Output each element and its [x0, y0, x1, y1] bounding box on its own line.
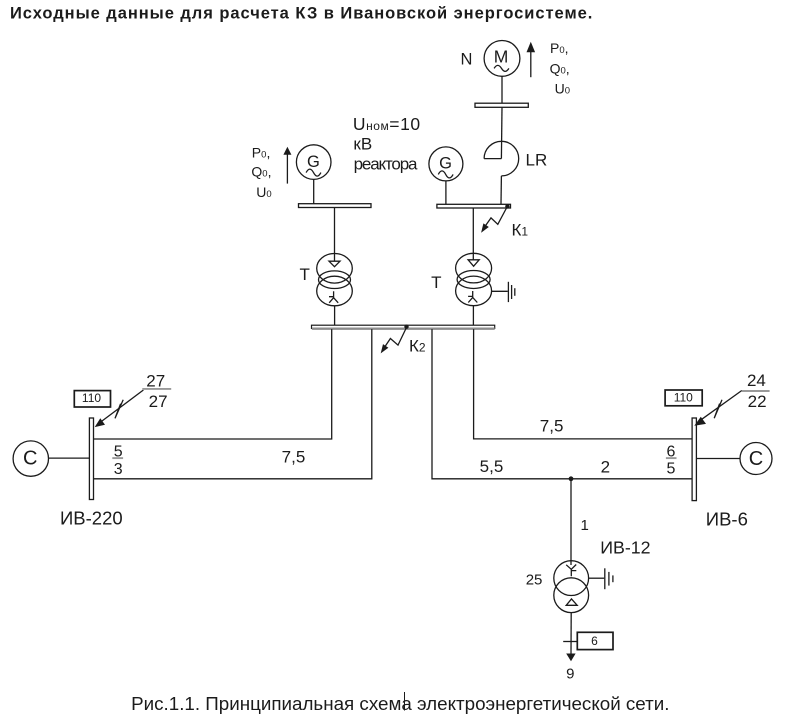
transformer IV-12: [554, 561, 589, 596]
wire busbar3 to transformer T left: [334, 208, 336, 262]
svg-text:P0,: P0,: [550, 40, 569, 56]
wire T left to center busbar: [334, 306, 336, 325]
motor M: [484, 41, 520, 77]
wire motor to busbar1: [501, 76, 503, 103]
svg-text:2: 2: [601, 457, 610, 476]
svg-text:5,5: 5,5: [480, 457, 504, 476]
svg-text:кВ: кВ: [353, 135, 372, 154]
wire C left to busbar: [49, 457, 90, 459]
svg-text:К2: К2: [409, 336, 426, 355]
wire center bus down-right D: [474, 329, 692, 439]
wire junction to IV-12 transformer: [570, 479, 572, 565]
svg-text:U0: U0: [555, 81, 570, 97]
svg-text:LR: LR: [526, 150, 548, 169]
wire reactor to busbar2: [500, 176, 502, 204]
svg-text:5: 5: [666, 461, 675, 478]
svg-text:27: 27: [149, 392, 168, 411]
svg-text:P0,: P0,: [252, 144, 271, 160]
box 110 left: [74, 391, 110, 407]
center busbar: [312, 325, 495, 328]
transformer T left windings: [317, 253, 353, 283]
busbar IV-6: [692, 418, 696, 501]
svg-text:25: 25: [526, 572, 543, 589]
busbar IV-220: [89, 418, 93, 500]
tick on load wire: [563, 641, 578, 643]
svg-text:7,5: 7,5: [282, 448, 306, 467]
svg-text:С: С: [749, 448, 763, 470]
wire T right to center busbar: [472, 306, 474, 325]
svg-text:24: 24: [747, 371, 766, 390]
node K2 fault dot: [404, 325, 408, 329]
svg-text:ИВ-6: ИВ-6: [706, 508, 748, 529]
system C left: [13, 441, 48, 476]
svg-text:1: 1: [581, 517, 589, 534]
busbar1 (motor bus): [475, 103, 528, 107]
svg-text:5: 5: [114, 443, 123, 460]
svg-text:G: G: [307, 153, 320, 171]
wire busbar1 to reactor: [500, 107, 503, 158]
svg-text:Т: Т: [300, 265, 310, 284]
arrow up (motor P0 Q0 U0): [530, 51, 532, 77]
generator G right: [429, 147, 463, 181]
generator G left: [296, 145, 331, 180]
svg-text:M: M: [494, 47, 509, 67]
fraction 27/27: [142, 388, 171, 390]
svg-text:Т: Т: [431, 273, 441, 292]
lightning arrow K1: [483, 207, 507, 230]
box 110 right: [665, 390, 702, 406]
fraction 6/5: [666, 457, 677, 459]
svg-text:6: 6: [666, 443, 675, 460]
wire C right to busbar: [696, 458, 740, 460]
svg-text:22: 22: [748, 392, 767, 411]
svg-text:27: 27: [146, 371, 165, 390]
svg-text:реактора: реактора: [354, 155, 418, 174]
svg-text:С: С: [23, 448, 37, 470]
system C right: [740, 443, 772, 475]
wire center bus down-right C: [432, 329, 692, 479]
svg-text:ИВ-220: ИВ-220: [60, 507, 123, 528]
wire center bus down-left B: [94, 329, 372, 479]
arrow up (generator P0 Q0 U0): [286, 154, 288, 184]
svg-text:G: G: [439, 155, 452, 173]
transformer T right windings: [456, 253, 492, 283]
wire center bus down-left A: [94, 329, 332, 439]
ground (T right neutral): [492, 290, 508, 292]
svg-text:110: 110: [674, 390, 693, 404]
svg-text:Q0,: Q0,: [550, 60, 570, 76]
lightning arrow K2: [383, 327, 407, 350]
node junction on line: [569, 476, 574, 481]
svg-text:7,5: 7,5: [540, 417, 564, 436]
fraction 5/3: [112, 457, 123, 459]
reactor LR: [484, 141, 519, 176]
ground (IV-12 neutral): [589, 577, 605, 579]
lightning arrow to IV-220: [98, 390, 143, 424]
busbar2 (generator bus right): [437, 204, 511, 208]
wire IV-12 transformer down: [570, 613, 572, 655]
svg-text:110: 110: [82, 391, 101, 405]
svg-text:Рис.1.1. Принципиальная схема: Рис.1.1. Принципиальная схема электроэне…: [131, 693, 669, 714]
busbar3 (generator bus left): [299, 204, 372, 208]
lightning arrow to IV-6: [701, 391, 742, 421]
svg-text:9: 9: [566, 665, 574, 682]
svg-text:ИВ-12: ИВ-12: [600, 538, 650, 558]
wire G right to busbar2: [445, 181, 447, 204]
svg-text:U0: U0: [256, 184, 271, 200]
svg-text:К1: К1: [512, 220, 529, 239]
wire G left to busbar3: [313, 179, 315, 203]
text cursor: [404, 692, 406, 711]
svg-text:Uном=10: Uном=10: [353, 114, 421, 134]
node K1 fault dot: [505, 204, 509, 208]
svg-text:Q0,: Q0,: [251, 163, 271, 179]
svg-text:Исходные данные для расчета КЗ: Исходные данные для расчета КЗ в Ивановс…: [10, 4, 593, 22]
svg-text:3: 3: [114, 461, 123, 478]
fraction 24/22: [742, 390, 770, 392]
svg-text:6: 6: [591, 634, 598, 648]
arrow down (load): [566, 654, 575, 662]
svg-text:N: N: [461, 51, 473, 69]
box 6: [577, 632, 613, 649]
wire busbar2 to transformer T right: [472, 208, 474, 260]
